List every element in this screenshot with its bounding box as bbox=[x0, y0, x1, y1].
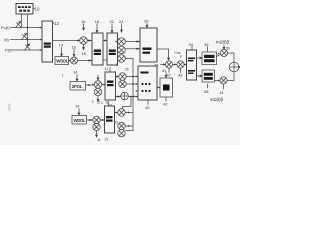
svg-text:24: 24 bbox=[119, 19, 124, 24]
label 46 bbox=[154, 63, 159, 68]
multiplier XE1 bbox=[118, 109, 125, 116]
numeral above WB bbox=[73, 70, 78, 75]
numeral 14 leader bbox=[59, 43, 64, 48]
svg-text:49: 49 bbox=[178, 73, 183, 78]
wire boxNB to XC1 bbox=[116, 76, 119, 78]
wire XE2 to trunk bbox=[125, 125, 133, 127]
wire input 2 bbox=[11, 39, 43, 41]
switch S1 bbox=[16, 22, 21, 28]
faint printed smudge bbox=[8, 104, 11, 112]
svg-text:I(t): I(t) bbox=[4, 37, 10, 42]
leader below XB2 bbox=[97, 96, 99, 102]
svg-text:L: L bbox=[102, 101, 104, 105]
svg-text:36: 36 bbox=[204, 42, 209, 47]
wire X50 elbow to adder bbox=[228, 53, 234, 62]
label mOhm(t)B bottom bbox=[210, 97, 224, 102]
multiplier XE3 bbox=[118, 130, 125, 137]
switch S2 bbox=[22, 34, 27, 40]
rail into XA bbox=[161, 64, 166, 66]
output wire right bbox=[239, 66, 240, 68]
branch elbow to XE1 bbox=[123, 97, 132, 109]
rail XB to boxD bbox=[184, 64, 186, 66]
svg-text:38: 38 bbox=[204, 89, 209, 94]
label 10 bbox=[35, 7, 40, 12]
box NC bbox=[105, 106, 115, 133]
leader below box40 bbox=[147, 101, 149, 105]
svg-text:34: 34 bbox=[189, 42, 194, 47]
wire boxNB to SB bbox=[116, 96, 121, 98]
svg-text:Pu(t): Pu(t) bbox=[1, 25, 10, 30]
wire D to F bbox=[197, 75, 203, 77]
svg-text:t.: t. bbox=[62, 74, 64, 78]
box NB bbox=[105, 72, 116, 100]
numeral 30 leader bbox=[144, 19, 149, 24]
trunk vertical bbox=[132, 59, 134, 127]
svg-text:30: 30 bbox=[144, 19, 149, 24]
elbow into XB bbox=[180, 56, 182, 58]
A/D converter box 12 bbox=[42, 21, 53, 62]
svg-text:Cos: Cos bbox=[175, 51, 181, 55]
svg-text:mΩ(t)β: mΩ(t)β bbox=[216, 40, 230, 45]
bandpass box BP 18 bbox=[92, 33, 103, 65]
adder X25 middle bbox=[118, 46, 126, 54]
box F bbox=[202, 70, 215, 82]
input label PU(t) bbox=[1, 25, 10, 30]
wire X52 elbow to adder bbox=[227, 72, 234, 81]
numeral above boxNB bbox=[105, 67, 109, 71]
adder SB bbox=[121, 92, 129, 100]
multiplier XD2 bbox=[93, 123, 100, 130]
processor box 30 bbox=[140, 28, 157, 62]
wire WB to XB1 bbox=[86, 84, 95, 86]
wire LP to X26 bbox=[117, 58, 119, 60]
wire A/D to mult 16 bbox=[53, 40, 80, 42]
svg-text:10: 10 bbox=[35, 7, 40, 12]
oscillator box WC bbox=[72, 116, 87, 125]
wire input 1 bbox=[11, 27, 43, 29]
svg-text:42: 42 bbox=[163, 102, 168, 107]
numeral 18 leader bbox=[95, 19, 100, 24]
oscillator box WB bbox=[70, 82, 86, 91]
control box U10 bbox=[16, 4, 33, 15]
input label I(t) bbox=[4, 37, 10, 42]
svg-text:44: 44 bbox=[220, 91, 224, 95]
oscillator box WSOL 14 bbox=[55, 57, 69, 65]
svg-text:WSOL: WSOL bbox=[74, 118, 86, 123]
svg-text:41: 41 bbox=[162, 68, 167, 73]
numeral above WC bbox=[75, 104, 80, 109]
svg-text:22: 22 bbox=[110, 19, 115, 24]
multiplier XB bbox=[177, 61, 184, 68]
multiplier XA bbox=[165, 61, 172, 68]
svg-text:mΩ(t)β: mΩ(t)β bbox=[210, 97, 224, 102]
wire XB1 to boxNB bbox=[102, 84, 105, 86]
wire box40 to boxN bbox=[157, 87, 160, 89]
svg-text:26: 26 bbox=[125, 68, 129, 72]
numeral below boxNB bbox=[108, 104, 112, 108]
multiplier X26 lower bbox=[118, 55, 126, 63]
box E bbox=[202, 52, 217, 65]
svg-text:Ω: Ω bbox=[106, 101, 109, 105]
svg-text:18: 18 bbox=[95, 19, 100, 24]
numeral above XB1 bbox=[97, 75, 99, 80]
numeral above M1 bbox=[73, 49, 75, 57]
svg-text:11: 11 bbox=[105, 67, 109, 71]
multiplier X52 lower bbox=[220, 77, 227, 84]
wire mid to box30 bbox=[125, 48, 140, 50]
numeral 24 leader bbox=[119, 19, 124, 24]
input label P(t) bbox=[5, 48, 12, 53]
numeral 34 leader bbox=[189, 42, 194, 47]
numeral below X16 bbox=[83, 44, 85, 49]
wire boxNC to XE1 bbox=[115, 112, 118, 114]
svg-text:Ω: Ω bbox=[98, 137, 101, 142]
wire LP to X24 bbox=[117, 41, 119, 43]
numeral 22 leader bbox=[110, 19, 115, 24]
leaders below XA XB bbox=[168, 68, 170, 72]
adder SUM bbox=[229, 62, 239, 72]
svg-text:0: 0 bbox=[116, 63, 118, 67]
wire BP to LP top bbox=[103, 40, 107, 42]
wire XE1 to trunk bbox=[125, 112, 133, 114]
label mOhm(t)B top bbox=[216, 40, 230, 45]
multiplier X24 bbox=[118, 38, 126, 46]
wire M1 to BP lower bbox=[78, 60, 93, 62]
numeral below boxNC bbox=[105, 138, 109, 142]
boxN display bbox=[160, 78, 173, 97]
entry arrowheads bbox=[40, 27, 220, 122]
wire XD1 to boxNC bbox=[100, 119, 104, 121]
numeral 16 leader above bbox=[81, 19, 86, 24]
multiplier M1 bbox=[71, 57, 78, 64]
svg-text:16: 16 bbox=[72, 45, 77, 50]
control box text bbox=[18, 6, 31, 12]
wire BP to LP bottom bbox=[103, 59, 107, 61]
svg-text:Ω: Ω bbox=[115, 120, 118, 125]
svg-text:14: 14 bbox=[59, 43, 64, 48]
lowpass box LP 22 bbox=[107, 33, 118, 65]
wire X26 to trunk bbox=[125, 58, 133, 60]
box30 out elbow to XA bbox=[157, 49, 169, 60]
svg-text:WSOL: WSOL bbox=[56, 59, 68, 64]
multiplier XE2 bbox=[118, 122, 125, 129]
numeral above boxN bbox=[165, 73, 167, 78]
svg-text:16: 16 bbox=[81, 19, 86, 24]
leader below X52 bbox=[223, 84, 225, 89]
wire D to E bbox=[197, 57, 203, 59]
multiplier X16 bbox=[80, 37, 88, 45]
label between bbox=[115, 120, 118, 125]
multiplier XC2 bbox=[119, 80, 126, 87]
svg-text:50: 50 bbox=[226, 47, 230, 51]
svg-text:14: 14 bbox=[73, 70, 78, 75]
svg-text:12: 12 bbox=[54, 21, 59, 26]
svg-text:Ω: Ω bbox=[97, 100, 100, 105]
svg-text:47: 47 bbox=[167, 73, 172, 78]
box40 processor lower bbox=[138, 66, 157, 100]
box D bbox=[187, 50, 197, 80]
svg-text:16: 16 bbox=[82, 51, 87, 56]
wire XC2 to box40 bbox=[126, 83, 138, 85]
wire X16 to BP bbox=[87, 40, 92, 42]
wire control to S1 bbox=[21, 14, 23, 28]
wire control to S3 bbox=[27, 14, 29, 47]
wire XC1 to box40 bbox=[126, 76, 138, 78]
wire F to X52 bbox=[215, 80, 220, 82]
leader below boxN bbox=[165, 98, 167, 102]
svg-text:2x: 2x bbox=[105, 138, 109, 142]
wire WC to XD1 bbox=[87, 119, 93, 121]
label 12 bbox=[53, 22, 55, 25]
svg-text:14: 14 bbox=[75, 104, 80, 109]
chain B oscillator label bbox=[62, 74, 64, 78]
multiplier XB1 bbox=[94, 81, 101, 88]
numeral 36 leader bbox=[204, 42, 209, 47]
svg-text:2FOL: 2FOL bbox=[72, 84, 83, 89]
wire input 3 bbox=[11, 49, 42, 51]
wire WSOL to M1 bbox=[69, 60, 71, 62]
svg-text:40: 40 bbox=[145, 105, 150, 110]
multiplier X50 bbox=[220, 49, 227, 56]
wire SB to box40 bbox=[128, 96, 138, 98]
rail XA to XB bbox=[173, 64, 177, 66]
multiplier XD1 bbox=[93, 116, 100, 123]
switch S3 bbox=[25, 44, 30, 50]
numerals above boxNC bbox=[102, 101, 109, 106]
wire XE3 elbow from trunk bbox=[126, 126, 133, 131]
wire X24 to box30 bbox=[125, 41, 140, 43]
svg-text:L: L bbox=[92, 100, 94, 104]
multiplier XB2 bbox=[94, 88, 101, 95]
leader below F bbox=[207, 84, 209, 88]
leader below XD2 bbox=[96, 131, 98, 137]
wire E to X50 bbox=[217, 54, 221, 56]
multiplier XC1 bbox=[119, 73, 126, 80]
